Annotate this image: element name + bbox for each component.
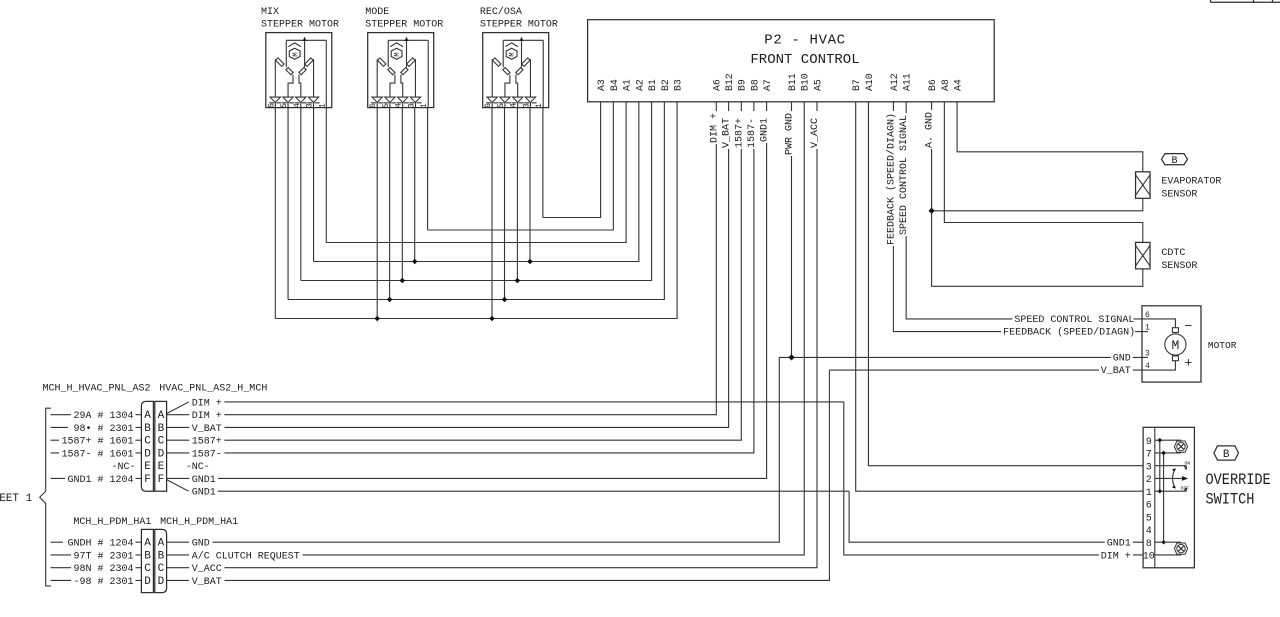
svg-text:PWR GND: PWR GND (785, 113, 796, 155)
svg-text:V_BAT: V_BAT (192, 577, 222, 588)
svg-text:A8: A8 (940, 79, 951, 91)
svg-text:SPEED CONTROL SIGNAL: SPEED CONTROL SIGNAL (899, 115, 910, 235)
svg-text:A: A (144, 410, 151, 422)
wire A11 SPEED CONTROL to motor pin6 (906, 102, 1143, 319)
svg-text:A: A (158, 538, 165, 550)
svg-text:CDTC: CDTC (1161, 248, 1185, 259)
svg-text:5: 5 (1146, 513, 1152, 524)
svg-text:B12: B12 (724, 73, 735, 91)
svg-text:C: C (158, 436, 165, 448)
svg-text:3: 3 (1146, 462, 1152, 473)
net label V_ACC on A5 (809, 111, 821, 149)
svg-text:A12: A12 (889, 73, 900, 91)
svg-text:D: D (144, 448, 151, 460)
junction REC pin5 on rail (502, 297, 508, 303)
net label A. GND on B6 (924, 110, 936, 149)
override pin column line (1154, 427, 1156, 568)
P2 pin labels (596, 73, 964, 91)
override internal bridge 7-8 (1163, 453, 1165, 542)
override switch box (1143, 427, 1194, 568)
svg-text:MOTOR: MOTOR (1208, 340, 1237, 351)
AS2 row B left (51, 426, 69, 428)
svg-text:29A # 1304: 29A # 1304 (73, 411, 133, 422)
wire A5 V_ACC row (225, 102, 818, 568)
wire rail pins6 to B3 (275, 102, 677, 319)
svg-text:A6: A6 (712, 79, 723, 91)
wire B10 to A/C clutch row (303, 102, 805, 555)
wire rail pins5 to B2 (288, 102, 664, 300)
override internal pin1 wire with OFF contact (1155, 488, 1187, 492)
PDM row B left (51, 554, 72, 556)
motor brush bottom (1172, 356, 1178, 361)
svg-text:SWITCH: SWITCH (1206, 492, 1255, 509)
wire rail pins3 to A2 (314, 102, 639, 262)
PDM row A right GND (167, 541, 189, 543)
junction MODE pin6 on rail (374, 316, 380, 322)
svg-text:D: D (144, 576, 151, 588)
svg-text:V_BAT: V_BAT (722, 118, 733, 148)
PDM row D right V_BAT (167, 579, 189, 581)
AS2 right row A DIM+ (167, 414, 190, 416)
svg-text:A5: A5 (812, 79, 823, 91)
PDM row A left (51, 541, 64, 543)
connector AS2 left shell (141, 401, 153, 491)
wire B11 PWR GND to junction (791, 102, 793, 358)
net label DIM + on A6 (708, 111, 720, 144)
wire B6 A.GND (932, 102, 1143, 286)
net label SPEED CONTROL SIGNAL at motor (1012, 311, 1134, 325)
motor armature circle (1165, 334, 1186, 355)
junction MODE pin4 on rail (400, 278, 406, 284)
wires: MODE pin6 (376, 108, 378, 319)
svg-text:GND1: GND1 (192, 488, 216, 499)
wire A10 to override pin3 (868, 102, 1143, 466)
PDM row C left (51, 567, 72, 569)
svg-text:B: B (158, 423, 165, 435)
B tag override (1214, 446, 1239, 461)
connector PDM right shell (155, 529, 167, 592)
net label GND1 on A7 (759, 111, 771, 143)
svg-text:9: 9 (1146, 437, 1152, 448)
net label 1587+ on B9 (733, 111, 745, 149)
override internal pin2 wire (1155, 477, 1171, 479)
wire junction to motor pin3 (792, 356, 1143, 358)
svg-text:B: B (144, 423, 151, 435)
wires: REC pin3 (529, 108, 531, 262)
PDM pin letters (144, 538, 164, 588)
override DIM+ label (1099, 548, 1133, 562)
wire A.GND branch to evaporator (932, 198, 1143, 211)
svg-text:B8: B8 (749, 79, 760, 91)
svg-text:EVAPORATOR: EVAPORATOR (1161, 177, 1221, 188)
svg-text:+: + (1185, 356, 1193, 371)
wire DIM+ branch to override pin10 (844, 402, 1143, 555)
svg-text:M: M (1171, 338, 1179, 353)
evaporator sensor (1136, 172, 1151, 199)
svg-text:OVERRIDE: OVERRIDE (1206, 472, 1271, 489)
svg-text:98• # 2301: 98• # 2301 (73, 424, 133, 435)
wire A12 FEEDBACK to motor pin1 (893, 102, 1143, 332)
svg-text:DIM +: DIM + (192, 411, 222, 422)
wire B8 1587- (224, 102, 754, 453)
svg-text:C: C (158, 563, 165, 575)
wire rail REC pin1 to A3 (543, 102, 601, 218)
svg-text:A11: A11 (902, 73, 913, 91)
svg-text:DIM +: DIM + (709, 113, 720, 143)
svg-text:98N # 2304: 98N # 2304 (73, 564, 133, 575)
sheet bracket (40, 408, 51, 586)
svg-text:OFF: OFF (1181, 485, 1190, 491)
wires: MODE pin1 (427, 108, 429, 230)
svg-text:MCH_H_PDM_HA1: MCH_H_PDM_HA1 (73, 517, 151, 528)
junction dot A.GND (929, 208, 935, 214)
wire rail MODE pin1 to B4 (428, 102, 614, 230)
AS2 right row C 1587+ (167, 439, 190, 441)
svg-text:8: 8 (1146, 539, 1152, 550)
svg-text:DIM +: DIM + (1101, 551, 1131, 562)
svg-text:1587+: 1587+ (192, 437, 222, 448)
svg-text:FRONT CONTROL: FRONT CONTROL (750, 52, 859, 68)
wire rail pins4 to B1 (301, 102, 652, 281)
override switch travel arc (1173, 469, 1176, 489)
svg-text:P2 - HVAC: P2 - HVAC (764, 33, 845, 49)
svg-text:B4: B4 (609, 79, 620, 91)
svg-text:V_BAT: V_BAT (192, 424, 222, 435)
junction MODE pin5 on rail (387, 297, 393, 303)
AS2 pin letters (144, 410, 164, 486)
svg-text:-NC-: -NC- (111, 462, 135, 473)
connector AS2 right shell (155, 401, 167, 491)
svg-text:MCH_H_PDM_HA1: MCH_H_PDM_HA1 (160, 517, 238, 528)
override lamp2 stem (1180, 542, 1182, 555)
AS2 right row F GND1 (167, 477, 190, 479)
svg-text:B3: B3 (673, 79, 684, 91)
svg-text:V_ACC: V_ACC (810, 118, 821, 148)
wire A8 to CDTC sensor top (944, 102, 1142, 243)
wires: REC pin5 (504, 108, 506, 300)
svg-text:E: E (158, 461, 165, 473)
motor internal pin4 wire (1142, 361, 1175, 370)
wires: MODE pin5 (389, 108, 391, 300)
svg-text:B11: B11 (787, 73, 798, 91)
svg-text:B6: B6 (927, 79, 938, 91)
connector PDM left shell (141, 529, 153, 592)
AS2 right row GND1 lower branch (167, 480, 189, 492)
svg-text:B1: B1 (647, 79, 658, 91)
svg-text:B10: B10 (800, 73, 811, 91)
net label V_BAT on B12 (721, 111, 733, 149)
override internal pin8 wire (1155, 541, 1181, 543)
override pin numbers (1143, 437, 1155, 563)
svg-text:GND1: GND1 (760, 118, 771, 142)
PDM row B right A/C (167, 554, 189, 556)
svg-text:GNDH # 1204: GNDH # 1204 (67, 539, 133, 550)
svg-text:2: 2 (1146, 475, 1152, 486)
svg-text:A2: A2 (634, 79, 645, 91)
svg-text:A4: A4 (953, 79, 964, 91)
svg-text:MIX: MIX (261, 7, 279, 18)
wires: MIX pin3 (313, 108, 315, 262)
svg-text:1587-: 1587- (192, 449, 222, 460)
motor internal pin1 stub (1142, 331, 1148, 333)
svg-text:STEPPER MOTOR: STEPPER MOTOR (261, 19, 339, 30)
B tag evaporator (1162, 154, 1188, 167)
motor brush top (1172, 328, 1178, 333)
CDTC sensor (1136, 242, 1151, 269)
override internal pin10 wire (1155, 554, 1181, 556)
junction REC pin4 on rail (515, 278, 521, 284)
svg-text:GND: GND (192, 539, 210, 550)
PDM row D left (51, 579, 72, 581)
AS2 row C left (51, 439, 60, 441)
svg-text:-98 # 2301: -98 # 2301 (73, 577, 133, 588)
junction REC pin3 on rail (527, 259, 533, 265)
svg-text:SENSOR: SENSOR (1161, 190, 1197, 201)
svg-text:E: E (144, 461, 151, 473)
svg-text:DIM +: DIM + (192, 398, 222, 409)
svg-text:F: F (158, 474, 165, 486)
svg-text:MCH_H_HVAC_PNL_AS2: MCH_H_HVAC_PNL_AS2 (43, 384, 151, 395)
svg-text:V_ACC: V_ACC (192, 564, 222, 575)
svg-text:MODE: MODE (365, 7, 389, 18)
AS2 right row B V_BAT (167, 426, 190, 428)
svg-text:B2: B2 (660, 79, 671, 91)
svg-text:1587- # 1601: 1587- # 1601 (61, 449, 133, 460)
override internal pin3 wire with ON contact (1155, 466, 1187, 470)
net label SPEED CONTROL SIGNAL on A11 (898, 113, 910, 236)
AS2 row A left wire and text (51, 414, 72, 416)
svg-text:A: A (144, 538, 151, 550)
svg-text:A1: A1 (622, 79, 633, 91)
wires: MODE pin3 (414, 108, 416, 262)
override internal pin9 wire (1155, 439, 1181, 441)
svg-text:ON: ON (1185, 461, 1191, 467)
junction MODE pin3 on rail (412, 259, 418, 265)
svg-text:C: C (144, 563, 151, 575)
wires: MIX pin6 (274, 108, 276, 319)
svg-text:A: A (158, 410, 165, 422)
MOTOR box (1142, 306, 1201, 382)
AS2 row F left (51, 477, 66, 479)
override lamp1 (1174, 441, 1187, 452)
rotated net labels (708, 110, 935, 246)
svg-text:D: D (158, 576, 165, 588)
svg-text:HVAC_PNL_AS2_H_MCH: HVAC_PNL_AS2_H_MCH (159, 384, 267, 395)
svg-text:SENSOR: SENSOR (1161, 261, 1197, 272)
svg-text:D: D (158, 448, 165, 460)
svg-text:A7: A7 (762, 79, 773, 91)
stepper motor REC/OSA (483, 33, 549, 108)
svg-text:B9: B9 (737, 79, 748, 91)
svg-text:SHEET 1: SHEET 1 (0, 493, 33, 505)
override GND1 label (1105, 535, 1133, 549)
svg-text:A3: A3 (596, 79, 607, 91)
wires: MODE pin4 (401, 108, 403, 281)
wire B12 V_BAT (224, 102, 728, 428)
svg-text:STEPPER MOTOR: STEPPER MOTOR (480, 19, 558, 30)
net label FEEDBACK (SPEED/DIAGN) on A12 (885, 111, 897, 246)
svg-text:FEEDBACK (SPEED/DIAGN): FEEDBACK (SPEED/DIAGN) (1003, 327, 1135, 339)
junction REC pin6 on rail (489, 316, 495, 322)
AS2 row D left (51, 452, 60, 454)
stepper motor MIX (266, 33, 332, 108)
svg-text:1587+ # 1601: 1587+ # 1601 (61, 437, 133, 448)
svg-text:GND1 # 1204: GND1 # 1204 (67, 475, 133, 486)
wire A6 DIM+ (224, 102, 716, 415)
svg-text:A10: A10 (864, 73, 875, 91)
wire GND1 branch to override pin8 (849, 491, 1143, 542)
svg-text:C: C (144, 436, 151, 448)
net label GND at motor (1111, 350, 1133, 364)
override lamp1 stem (1180, 440, 1182, 453)
svg-text:B: B (1223, 449, 1230, 461)
svg-text:REC/OSA: REC/OSA (480, 6, 522, 18)
wires: REC pin1 (542, 108, 544, 218)
net label 1587- on B8 (746, 111, 758, 149)
svg-text:7: 7 (1146, 450, 1152, 461)
svg-text:6: 6 (1146, 501, 1152, 512)
motor circuit labels (1001, 311, 1135, 377)
svg-text:1: 1 (1146, 488, 1152, 499)
svg-text:-NC-: -NC- (186, 462, 210, 473)
svg-text:B: B (144, 550, 151, 562)
svg-text:F: F (144, 474, 151, 486)
svg-text:GND1: GND1 (192, 475, 216, 486)
motor internal pin3 stub (1142, 356, 1148, 358)
svg-text:B7: B7 (851, 79, 862, 91)
wire B7 to override pin1 (856, 102, 1143, 491)
PDM row C right V_ACC (167, 567, 189, 569)
P2 HVAC front control box (588, 20, 995, 102)
svg-text:GND1: GND1 (1107, 539, 1131, 550)
wire A7 GND1 (218, 102, 767, 479)
wire B9 1587+ (224, 102, 741, 440)
svg-text:−: − (1185, 319, 1193, 334)
override internal bridge 9-1 (1159, 440, 1161, 491)
junction dot PWR GND (788, 354, 794, 360)
svg-text:A. GND: A. GND (925, 112, 936, 148)
svg-text:V_BAT: V_BAT (1101, 366, 1131, 377)
svg-text:STEPPER MOTOR: STEPPER MOTOR (365, 19, 443, 30)
motor internal pin6 wire (1142, 319, 1175, 328)
svg-text:1587-: 1587- (747, 118, 758, 148)
wires: REC pin4 (516, 108, 518, 281)
net label V_BAT at motor (1099, 363, 1133, 377)
wire A4 to evaporator top (957, 102, 1143, 172)
svg-text:B: B (158, 550, 165, 562)
wire motor V_BAT (225, 370, 1143, 580)
AS2 right row DIM+ upper branch (167, 402, 189, 414)
svg-text:A/C CLUTCH REQUEST: A/C CLUTCH REQUEST (192, 550, 300, 562)
stepper motor MODE (368, 33, 434, 108)
override lamp2 (1174, 543, 1187, 554)
wires: MIX pin5 (287, 108, 289, 300)
override internal pin7 wire (1155, 452, 1181, 454)
net label FEEDBACK (SPEED/DIAGN) at motor (1001, 324, 1135, 338)
svg-text:10: 10 (1143, 552, 1155, 563)
AS2 right row D 1587- (167, 452, 190, 454)
wire rail MIX pin1 to A1 (326, 102, 626, 243)
wires: MIX pin4 (300, 108, 302, 281)
wires: MIX pin1 (325, 108, 327, 243)
svg-text:1587+: 1587+ (734, 118, 745, 148)
wires: REC pin6 (491, 108, 493, 319)
svg-text:FEEDBACK (SPEED/DIAGN): FEEDBACK (SPEED/DIAGN) (885, 113, 897, 245)
wire junction to PDM GND row (213, 357, 792, 542)
override switch arm arrow (1171, 477, 1183, 479)
border frame fragment top-right (1211, 0, 1280, 2)
net label PWR GND on B11 (784, 111, 796, 156)
svg-text:97T # 2301: 97T # 2301 (73, 551, 133, 562)
svg-text:4: 4 (1146, 526, 1152, 537)
